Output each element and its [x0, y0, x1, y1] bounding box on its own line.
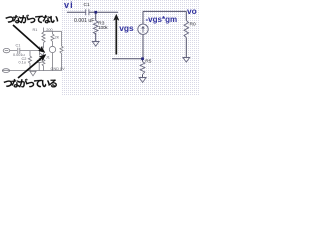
svg-text:C1: C1: [84, 2, 90, 8]
svg-text:R0: R0: [190, 21, 196, 27]
svg-text:-vgs*gm: -vgs*gm: [146, 15, 178, 24]
svg-text:0.1u: 0.1u: [19, 60, 26, 64]
svg-text:C1: C1: [16, 44, 21, 48]
svg-text:2K: 2K: [55, 35, 60, 39]
svg-text:200: 200: [46, 28, 52, 32]
svg-text:vo: vo: [187, 6, 197, 16]
svg-text:GND 0V: GND 0V: [51, 67, 66, 71]
svg-text:J1: J1: [46, 56, 50, 60]
svg-text:R5: R5: [145, 58, 151, 64]
svg-text:0.001 uF: 0.001 uF: [74, 18, 94, 24]
svg-text:100k: 100k: [98, 25, 108, 30]
svg-text:vgs: vgs: [119, 23, 134, 33]
svg-text:R1: R1: [33, 28, 38, 32]
svg-text:vi: vi: [64, 0, 74, 10]
